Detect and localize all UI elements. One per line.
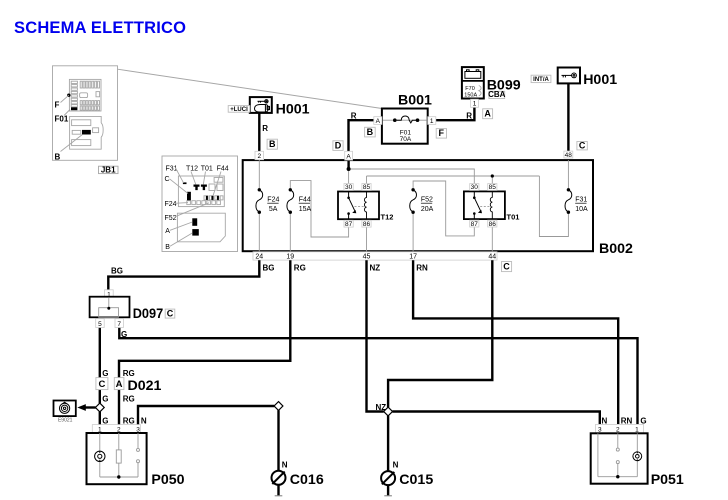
svg-text:RG: RG (123, 395, 135, 404)
svg-text:1: 1 (430, 118, 434, 125)
svg-text:N: N (141, 417, 147, 426)
svg-text:45: 45 (363, 254, 371, 261)
svg-text:RN: RN (416, 264, 428, 273)
svg-text:F: F (439, 128, 445, 138)
svg-text:48: 48 (565, 152, 573, 159)
svg-text:T01: T01 (507, 212, 520, 221)
svg-text:JB1: JB1 (101, 165, 116, 174)
svg-text:G: G (102, 369, 108, 378)
svg-text:F24: F24 (165, 201, 177, 208)
svg-text:P051: P051 (651, 472, 684, 488)
svg-text:D021: D021 (128, 378, 162, 394)
svg-text:C: C (503, 262, 510, 272)
svg-text:F24: F24 (267, 197, 279, 204)
svg-text:F: F (55, 101, 60, 110)
svg-text:F31: F31 (575, 197, 587, 204)
svg-text:A: A (165, 228, 170, 235)
svg-text:N: N (393, 461, 399, 470)
svg-text:A: A (346, 153, 351, 160)
svg-text:R: R (466, 112, 472, 121)
svg-text:G: G (121, 330, 127, 339)
svg-text:R: R (262, 124, 268, 133)
svg-text:87: 87 (345, 221, 353, 228)
svg-text:C: C (579, 140, 586, 150)
svg-text:H001: H001 (276, 102, 310, 118)
svg-text:30: 30 (345, 184, 353, 191)
svg-text:70A: 70A (400, 136, 412, 143)
svg-text:P050: P050 (151, 472, 184, 488)
svg-text:86: 86 (489, 221, 497, 228)
svg-text:15A: 15A (299, 206, 312, 213)
svg-text:85: 85 (489, 184, 497, 191)
svg-text:24: 24 (255, 254, 263, 261)
svg-text:10A: 10A (575, 206, 588, 213)
svg-text:F52: F52 (165, 215, 177, 222)
svg-text:C016: C016 (290, 472, 324, 488)
svg-text:H001: H001 (583, 72, 617, 88)
svg-text:2: 2 (257, 153, 261, 160)
svg-text:20A: 20A (421, 206, 434, 213)
svg-text:F44: F44 (217, 165, 229, 172)
svg-text:RG: RG (294, 264, 306, 273)
svg-text:C: C (167, 308, 174, 318)
svg-text:SCHEMA ELETTRICO: SCHEMA ELETTRICO (14, 19, 186, 37)
svg-text:F01: F01 (55, 115, 69, 124)
svg-text:T01: T01 (201, 165, 213, 172)
svg-text:NZ: NZ (370, 264, 381, 273)
svg-text:B001: B001 (398, 93, 432, 109)
svg-text:1: 1 (473, 101, 477, 108)
svg-text:5A: 5A (269, 206, 278, 213)
svg-text:C015: C015 (399, 472, 433, 488)
svg-text:19: 19 (286, 254, 294, 261)
svg-text:RG: RG (123, 369, 135, 378)
svg-text:B: B (165, 244, 170, 251)
svg-text:N: N (282, 461, 288, 470)
svg-text:B: B (55, 152, 61, 161)
svg-text:BG: BG (263, 264, 275, 273)
svg-text:30: 30 (471, 184, 479, 191)
svg-text:D: D (335, 140, 342, 150)
svg-text:+LUCI: +LUCI (230, 107, 248, 113)
svg-text:17: 17 (409, 254, 417, 261)
svg-text:D097: D097 (133, 306, 164, 322)
svg-text:44: 44 (488, 254, 496, 261)
svg-text:85: 85 (363, 184, 371, 191)
svg-text:F44: F44 (299, 197, 311, 204)
svg-text:C: C (165, 176, 170, 183)
svg-text:A: A (484, 109, 491, 119)
svg-text:B002: B002 (599, 241, 633, 257)
svg-text:T12: T12 (186, 165, 198, 172)
svg-text:5: 5 (98, 321, 102, 328)
svg-text:A: A (116, 379, 123, 390)
svg-text:87: 87 (471, 221, 479, 228)
svg-text:C: C (98, 379, 105, 390)
svg-text:R: R (351, 112, 357, 121)
svg-text:INT/A: INT/A (533, 77, 549, 83)
svg-text:G: G (102, 395, 108, 404)
svg-text:B: B (269, 139, 276, 149)
svg-text:E9021: E9021 (58, 417, 73, 423)
svg-text:CBA: CBA (488, 90, 506, 99)
svg-text:F52: F52 (421, 197, 433, 204)
svg-text:7: 7 (117, 321, 121, 328)
svg-text:A: A (376, 118, 381, 125)
svg-text:F70: F70 (465, 86, 474, 92)
svg-text:B: B (367, 127, 374, 137)
svg-text:T12: T12 (381, 212, 394, 221)
svg-text:BG: BG (111, 267, 123, 276)
svg-text:150A: 150A (464, 93, 477, 99)
svg-text:86: 86 (363, 221, 371, 228)
